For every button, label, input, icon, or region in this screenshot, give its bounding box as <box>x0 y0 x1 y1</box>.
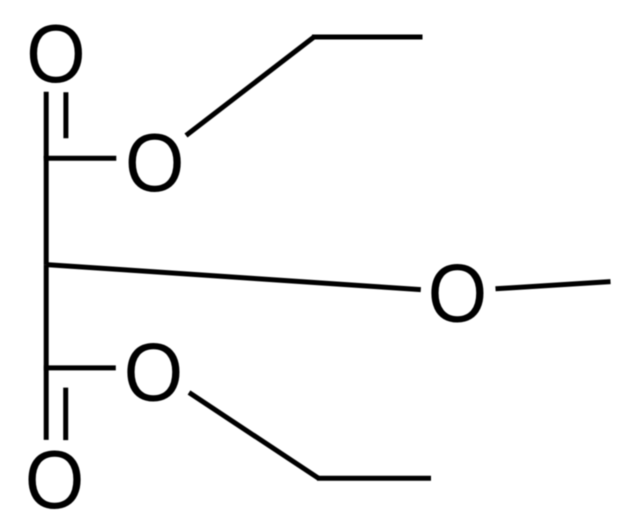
bond C2=O1 double bond line 1 (main vertical upper) <box>44 92 49 158</box>
bond O4-CH2 bottom diagonal <box>189 393 319 479</box>
bond CH2-CH3 bottom horizontal <box>317 476 431 481</box>
svg-text:O: O <box>25 433 84 526</box>
svg-text:O: O <box>124 325 183 418</box>
svg-text:O: O <box>428 246 487 339</box>
bond C2=O1 double bond line 2 <box>63 92 68 138</box>
bond C2-C3 backbone vertical upper <box>44 156 49 265</box>
bond C3-O3 ether long bond <box>46 265 421 290</box>
bond O2-CH2 top diagonal <box>186 37 314 136</box>
bond C2-O2 ester horizontal top <box>44 156 117 161</box>
bond C4=O5 double bond line 1 (main vertical lower) <box>44 368 49 440</box>
svg-text:O: O <box>26 7 85 100</box>
bond CH2-CH3 top horizontal <box>312 35 423 40</box>
bond C3-C4 backbone vertical lower <box>44 265 49 368</box>
bond C4-O4 ester horizontal bottom <box>44 365 116 370</box>
svg-text:O: O <box>125 116 184 209</box>
bond C4=O5 double bond line 2 <box>63 388 68 441</box>
bond O3-CH3 methyl bond right <box>496 282 611 289</box>
